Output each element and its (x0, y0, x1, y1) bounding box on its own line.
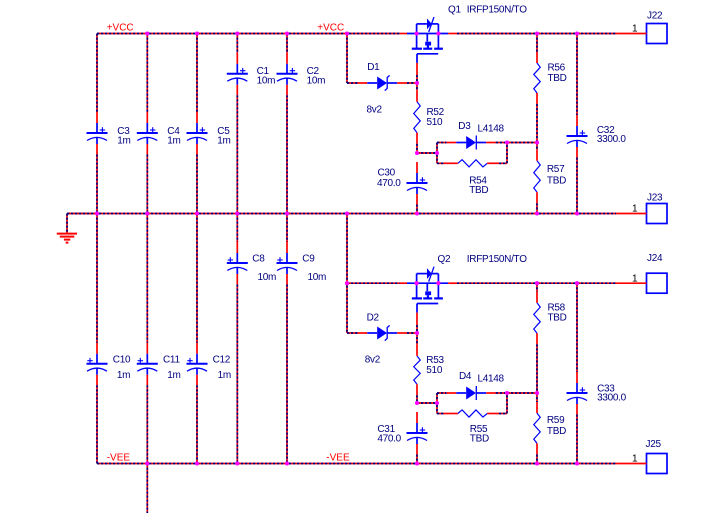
label J22 designator (647, 11, 663, 22)
junction mid rail / C32 (575, 211, 579, 215)
pin left (445, 162, 458, 164)
pin C12.2 (196, 375, 198, 386)
capacitor C1 (227, 64, 248, 85)
pin D3 anode (447, 142, 457, 144)
wire +VCC top rail left (97, 33, 400, 35)
label Q1 part number (467, 5, 527, 16)
wire bus v1 seg d (96, 385, 98, 463)
diode D2 (367, 325, 397, 340)
svg-text:D2: D2 (367, 313, 380, 324)
svg-text:510: 510 (427, 117, 444, 128)
wire box1 top right wire (496, 142, 507, 144)
wire +VCC top rail right (457, 33, 616, 35)
pin R56.1 (536, 52, 538, 63)
pin Q1 source (448, 33, 457, 35)
label C32 value (597, 134, 627, 145)
svg-text:L4148: L4148 (478, 374, 505, 385)
pin R53.2 (416, 384, 418, 395)
junction top rail / C4 (145, 31, 149, 35)
resistor R58 (534, 303, 541, 334)
wire node to R59 (536, 393, 538, 402)
junction bottom rail / C9b (285, 461, 289, 465)
label net label -VEE right (326, 453, 350, 464)
svg-text:C30: C30 (378, 168, 396, 179)
wire bus v1 seg b (96, 155, 98, 214)
capacitor C12 (187, 354, 208, 375)
junction bottom rail / C11 (145, 461, 149, 465)
wire node to box1 (417, 152, 437, 154)
junction box2 left node (435, 401, 439, 405)
label R54 value (469, 185, 488, 196)
junction mid rail / ground (95, 211, 99, 215)
wire rail to R58 (536, 283, 538, 292)
label R57 value (547, 176, 566, 187)
connector J25 (647, 454, 668, 474)
svg-text:Q1: Q1 (448, 5, 461, 16)
label C8 designator (252, 254, 265, 265)
pin C33.2 (576, 404, 578, 415)
pin Q1 drain (400, 33, 407, 35)
wire node to R57 (536, 143, 538, 150)
wire box2 top left wire (437, 392, 446, 394)
transistor Q2 (IRFP150N/TO) (407, 267, 448, 313)
capacitor C30 (407, 173, 428, 194)
label R52 value (427, 117, 444, 128)
svg-text:3300.0: 3300.0 (597, 393, 627, 404)
label R54 designator (469, 176, 487, 187)
wire box1 right vertical (506, 143, 508, 164)
pin C31.1 (416, 412, 418, 423)
wire bus v1 seg c (96, 214, 98, 343)
pin R53.1 (416, 345, 418, 356)
resistor R55 body (458, 410, 487, 417)
wire bus v5 seg c (286, 214, 288, 243)
svg-text:J24: J24 (647, 253, 663, 264)
label R57 designator (547, 164, 565, 175)
label J24 pin number 1 (632, 273, 638, 284)
junction R52-C30 node (415, 151, 419, 155)
wire 0V mid rail (67, 213, 616, 215)
wire bus v4 seg c (236, 214, 238, 243)
junction box2 right node (505, 391, 509, 395)
svg-text:D3: D3 (458, 121, 471, 132)
label R53 designator (426, 355, 444, 366)
junction R58-R59 node (535, 391, 539, 395)
pin C32.1 (576, 115, 578, 126)
svg-text:+VCC: +VCC (317, 23, 344, 34)
label C30 designator (378, 168, 396, 179)
svg-text:R56: R56 (548, 63, 566, 74)
svg-text:R57: R57 (547, 164, 565, 175)
pin right (487, 413, 499, 415)
junction bottom rail / C31 (415, 461, 419, 465)
wire R56 to node (536, 104, 538, 143)
svg-text:C11: C11 (163, 355, 180, 366)
junction Q2 rail / branch (345, 281, 349, 285)
wire box2 top right wire (496, 392, 507, 394)
label D4 designator (459, 371, 472, 382)
label R55 value (470, 434, 489, 445)
svg-text:1m: 1m (167, 136, 180, 147)
connector J23 (647, 204, 668, 224)
label D2 designator (367, 313, 380, 324)
capacitor C8 (227, 253, 248, 274)
svg-text:1m: 1m (217, 136, 230, 147)
wire C33 to bottom rail (576, 415, 578, 464)
wire bus v5 seg a (286, 34, 288, 53)
label C3 value (117, 136, 130, 147)
capacitor C3 (87, 123, 108, 144)
junction bottom rail / C8b (235, 461, 239, 465)
pin C31.2 (416, 444, 418, 455)
pin R58.2 (536, 333, 538, 344)
svg-text:10m: 10m (258, 272, 277, 283)
wire box1 top left wire (437, 142, 446, 144)
pin Q2 gate (416, 313, 418, 326)
label J23 designator (647, 193, 663, 204)
pin D4 anode (447, 392, 457, 394)
pin C33.1 (576, 372, 578, 383)
label C5 value (217, 136, 230, 147)
svg-text:1: 1 (632, 204, 638, 215)
label C8 value (258, 272, 277, 283)
pin R58.1 (536, 292, 538, 303)
pin right (487, 162, 499, 164)
svg-text:1m: 1m (117, 370, 130, 381)
wire D2 cathode to gate node (407, 332, 417, 334)
wire bus v2 seg c (146, 214, 148, 343)
svg-text:TBD: TBD (547, 426, 566, 437)
pin C9.1 (286, 242, 288, 253)
junction mid rail / D2 branch (345, 211, 349, 215)
junction box1 left node (435, 151, 439, 155)
label R58 value (548, 313, 567, 324)
label net label +VCC left (107, 23, 134, 34)
junction bottom rail / R59 (535, 461, 539, 465)
resistor R54 body (458, 160, 487, 167)
wire Q2 drain rail left (347, 282, 400, 284)
wire Q2 source rail right (457, 282, 616, 284)
pin C2.1 (286, 53, 288, 64)
connector J24 (647, 273, 668, 293)
svg-text:D4: D4 (459, 371, 472, 382)
svg-text:C8: C8 (252, 254, 265, 265)
label D3 designator (458, 121, 471, 132)
pin R59.2 (536, 443, 538, 454)
wire box2 bottom right wire (499, 413, 507, 415)
pin C9.2 (286, 274, 288, 285)
svg-text:10m: 10m (308, 272, 327, 283)
junction Q2 rail / R58 (535, 281, 539, 285)
wire box1 left vertical (436, 143, 438, 164)
wire R58 to node (536, 344, 538, 393)
label J24 designator (647, 253, 663, 264)
junction D1-gate-R52 node (415, 81, 419, 85)
label R56 value (548, 73, 567, 84)
svg-text:1: 1 (632, 24, 638, 35)
label C2 designator (307, 66, 320, 77)
label Q1 designator (448, 5, 461, 16)
junction Q1 source node (436, 31, 440, 35)
pin D4 cathode (486, 392, 496, 394)
svg-text:1: 1 (632, 454, 638, 465)
label J25 designator (646, 439, 662, 450)
label R56 designator (548, 63, 566, 74)
junction top rail / R56 (535, 31, 539, 35)
pin D1 cathode (397, 82, 407, 84)
wire bus v4 seg a (236, 34, 238, 53)
svg-text:J25: J25 (646, 439, 662, 450)
label C31 designator (377, 424, 395, 435)
label C1 value (257, 76, 276, 87)
label R53 value (426, 365, 443, 376)
label C11 value (167, 370, 180, 381)
wire bus v5 seg b (286, 95, 288, 213)
svg-text:C9: C9 (302, 254, 315, 265)
label C4 value (167, 136, 180, 147)
connector J22 (647, 24, 668, 44)
pin R59.1 (536, 402, 538, 413)
wire D1 cathode to gate node (407, 82, 417, 84)
label R55 designator (470, 424, 488, 435)
wire Q2 gate wire (416, 325, 418, 333)
junction R56-R57 node (535, 140, 539, 144)
pin C3.1 (96, 112, 98, 123)
svg-text:Q2: Q2 (438, 254, 451, 265)
pin R52.2 (416, 133, 418, 144)
capacitor C31 (407, 423, 428, 444)
label C32 designator (597, 125, 615, 136)
wire bus v3 seg b (196, 155, 198, 214)
svg-text:-VEE: -VEE (107, 453, 131, 464)
junction R53-C31 node (415, 401, 419, 405)
pin C5.2 (196, 144, 198, 155)
label net label -VEE left (107, 453, 131, 464)
junction top rail / C2 (285, 31, 289, 35)
svg-text:510: 510 (426, 365, 443, 376)
label J22 pin number 1 (632, 24, 638, 35)
pin C4.2 (146, 144, 148, 155)
wire rail to R56 (536, 34, 538, 53)
wire D1 anode wire (347, 82, 358, 84)
label C1 designator (257, 66, 270, 77)
junction mid rail / C9 (285, 211, 289, 215)
svg-text:J22: J22 (647, 11, 663, 22)
diode D3 (456, 136, 486, 150)
capacitor C5 (187, 123, 208, 144)
wire gate node to R52 (416, 83, 418, 91)
label C5 designator (217, 126, 230, 137)
capacitor C2 (277, 64, 298, 85)
svg-text:+VCC: +VCC (107, 23, 134, 34)
label net label +VCC right (317, 23, 344, 34)
pin Q1 gate (416, 63, 418, 76)
label C10 designator (113, 355, 131, 366)
pin D1 anode (358, 82, 368, 84)
label C4 designator (167, 126, 180, 137)
capacitor C32 (567, 126, 588, 147)
label D4 value L4148 (478, 374, 505, 385)
svg-text:TBD: TBD (469, 185, 488, 196)
label D2 value 8v2 (365, 355, 381, 366)
pin C5.1 (196, 112, 198, 123)
wire R59 to bottom rail (536, 454, 538, 463)
pin Q2 source (448, 282, 457, 284)
junction Q1 drain node (415, 31, 419, 35)
label D1 designator (367, 62, 380, 73)
junction Q2 rail / C33 (575, 281, 579, 285)
junction bottom rail / C33 (575, 461, 579, 465)
label C12 value (218, 370, 231, 381)
svg-text:IRFP150N/TO: IRFP150N/TO (467, 5, 527, 16)
label C10 value (117, 370, 130, 381)
wire bus v4 seg b (236, 95, 238, 213)
ground symbol (57, 234, 77, 243)
resistor R52 (414, 102, 421, 133)
pin J23.1 (616, 213, 647, 215)
pin J25.1 (616, 463, 647, 465)
wire bus v3 seg a (196, 34, 198, 113)
wire box2 left vertical (436, 393, 438, 414)
label R59 designator (547, 415, 565, 426)
transistor Q1 (IRFP150N/TO) (407, 17, 448, 63)
svg-text:C10: C10 (113, 355, 131, 366)
wire ground stub horizontal (67, 213, 97, 215)
pin C1.1 (236, 53, 238, 64)
capacitor C33 (567, 383, 588, 404)
resistor R59 (534, 413, 541, 443)
svg-text:J23: J23 (647, 193, 663, 204)
svg-text:470.0: 470.0 (377, 434, 401, 445)
pin R56.2 (536, 93, 538, 104)
svg-text:470.0: 470.0 (377, 178, 401, 189)
label C9 value (308, 272, 327, 283)
wire bus v3 seg d (196, 385, 198, 463)
label C11 designator (163, 355, 180, 366)
junction top rail / C5 (195, 31, 199, 35)
junction bottom rail / C12 (195, 461, 199, 465)
pin R52.1 (416, 91, 418, 102)
svg-text:8v2: 8v2 (367, 105, 383, 116)
junction D2-gate-R53 node (415, 331, 419, 335)
wire box1 bottom left wire (437, 162, 445, 164)
wire Q1 gate wire (416, 75, 418, 83)
junction mid rail / C4 (145, 211, 149, 215)
wire bus v5 seg d (286, 285, 288, 464)
label D1 value 8v2 (367, 105, 383, 116)
label C3 designator (117, 126, 130, 137)
wire node to box2 (417, 402, 437, 404)
svg-text:1m: 1m (218, 370, 231, 381)
svg-text:R59: R59 (547, 415, 565, 426)
pin C2.2 (286, 85, 288, 96)
pin C30.2 (416, 194, 418, 205)
label D3 value L4148 (478, 124, 505, 135)
pin C32.2 (576, 147, 578, 158)
resistor R56 (534, 63, 541, 93)
wire D2 anode wire (347, 332, 358, 334)
diode D4 (456, 386, 486, 400)
wire C32 to mid rail (576, 158, 578, 214)
svg-text:D1: D1 (367, 62, 380, 73)
wire C30 to mid rail (416, 205, 418, 214)
capacitor C10 (87, 354, 108, 375)
pin R57.1 (536, 150, 538, 161)
pin D2 cathode (397, 332, 407, 334)
pin C8.2 (236, 274, 238, 285)
junction box1 right node (505, 140, 509, 144)
label C33 designator (597, 384, 615, 395)
wire box1 bottom right wire (499, 162, 507, 164)
junction mid rail / C8 (235, 211, 239, 215)
pin C4.1 (146, 112, 148, 123)
pin R57.2 (536, 192, 538, 203)
junction top rail / C32 (575, 31, 579, 35)
capacitor C11 (137, 354, 158, 375)
svg-text:10m: 10m (307, 76, 326, 87)
capacitor C4 (137, 123, 158, 144)
pin C30.1 (416, 162, 418, 173)
wire box1 to R56 node (507, 142, 537, 144)
wire rail to C32 (576, 34, 578, 116)
svg-text:-VEE: -VEE (326, 453, 350, 464)
label C12 designator (213, 355, 231, 366)
pin C3.2 (96, 144, 98, 155)
label R52 designator (427, 107, 445, 118)
label Q2 designator (438, 254, 451, 265)
svg-text:IRFP150N/TO: IRFP150N/TO (467, 254, 527, 265)
svg-text:L4148: L4148 (478, 124, 505, 135)
label J25 pin number 1 (632, 454, 638, 465)
svg-text:3300.0: 3300.0 (597, 134, 627, 145)
wire stub below -VEE (146, 464, 148, 514)
wire R53 to C31 node (416, 395, 418, 403)
svg-text:1: 1 (632, 273, 638, 284)
label C2 value (307, 76, 326, 87)
pin C1.2 (236, 85, 238, 96)
junction top rail / C1 (235, 31, 239, 35)
wire R57 to mid rail (536, 203, 538, 213)
wire branch 0V to D2 (346, 214, 348, 334)
wire bus v4 seg d (236, 285, 238, 464)
svg-text:1m: 1m (117, 136, 130, 147)
svg-text:10m: 10m (257, 76, 276, 87)
label C30 value (377, 178, 401, 189)
svg-text:8v2: 8v2 (365, 355, 381, 366)
label J23 pin number 1 (632, 204, 638, 215)
wire box2 to R58 node (507, 392, 537, 394)
junction mid rail / C5 (195, 211, 199, 215)
pin D3 cathode (486, 142, 496, 144)
wire D2 node to R53 (416, 333, 418, 345)
junction top rail / D1 branch (345, 31, 349, 35)
resistor R57 (534, 161, 541, 193)
label Q2 part number (467, 254, 527, 265)
pin C8.1 (236, 242, 238, 253)
wire ground stub vertical (66, 214, 68, 234)
wire rail to C33 (576, 283, 578, 372)
svg-text:TBD: TBD (470, 434, 489, 445)
wire bus v1 seg a (96, 34, 98, 113)
svg-text:C12: C12 (213, 355, 231, 366)
label C9 designator (302, 254, 315, 265)
resistor R53 (414, 356, 421, 385)
wire bus v2 seg b (146, 155, 148, 214)
pin C11.2 (146, 375, 148, 386)
label R59 value (547, 426, 566, 437)
pin C12.1 (196, 343, 198, 354)
label C33 value (597, 393, 627, 404)
